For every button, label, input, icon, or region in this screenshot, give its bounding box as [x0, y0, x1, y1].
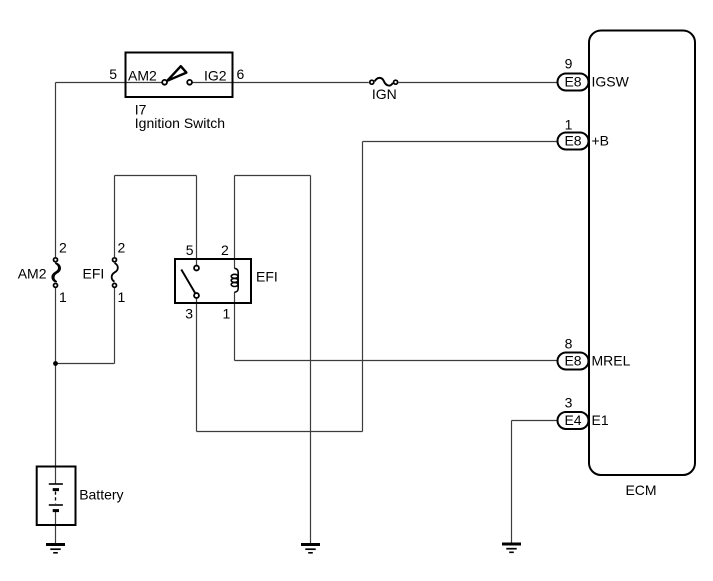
svg-text:AM2: AM2	[18, 265, 47, 281]
fuse EFI terminal 2	[113, 258, 117, 262]
svg-text:5: 5	[109, 66, 117, 82]
ignition switch box I7	[126, 53, 233, 98]
svg-text:E8: E8	[564, 353, 581, 369]
svg-text:E1: E1	[592, 412, 609, 428]
svg-text:3: 3	[565, 395, 573, 411]
wire EFI fuse vertical below terminal 1	[114, 288, 116, 364]
svg-text:9: 9	[565, 56, 573, 72]
svg-text:6: 6	[237, 66, 245, 82]
ignition switch right contact	[187, 80, 192, 85]
ignition switch left contact	[162, 80, 167, 85]
ignition switch lever	[167, 66, 186, 81]
ground relay coil	[301, 545, 320, 553]
wire main horizontal top from left vertical to ignition switch left contact	[56, 82, 162, 84]
svg-text:AM2: AM2	[128, 68, 157, 84]
fusible link AM2 element	[52, 263, 60, 282]
battery cell 2 negative plate	[53, 509, 59, 512]
wire horizontal from coil pin 1 to ECM MREL connector	[235, 360, 558, 362]
ground E1	[502, 544, 521, 552]
svg-text:2: 2	[221, 242, 229, 258]
relay coil	[231, 268, 238, 292]
svg-text:IG2: IG2	[204, 68, 227, 84]
junction node battery feed	[53, 361, 58, 366]
wire from relay pin 3 down	[196, 299, 198, 432]
svg-text:1: 1	[59, 289, 67, 305]
svg-text:ECM: ECM	[625, 482, 656, 498]
svg-text:5: 5	[186, 242, 194, 258]
wire battery negative to ground	[55, 511, 57, 544]
wire horizontal loop from coil pin 2 to ground riser	[235, 175, 311, 177]
svg-text:1: 1	[565, 117, 573, 133]
connector E8 pin 1 +B	[558, 133, 589, 150]
svg-text:8: 8	[565, 336, 573, 352]
fuse AM2 terminal 1	[54, 283, 58, 287]
fuse EFI terminal 1	[113, 283, 117, 287]
svg-text:2: 2	[59, 240, 67, 256]
svg-text:1: 1	[223, 306, 231, 322]
battery cell 2 positive plate	[49, 504, 63, 506]
svg-text:MREL: MREL	[592, 353, 631, 369]
wire EFI fuse vertical above terminal 2	[114, 176, 116, 258]
wire vertical +B riser	[362, 142, 364, 432]
battery box	[37, 467, 76, 526]
wire horizontal from junction to EFI fuse branch	[56, 363, 115, 365]
wire from relay coil pin 1 down to MREL line	[234, 292, 236, 360]
wire horizontal loop from EFI fuse to relay pin 5	[115, 175, 197, 177]
wire from ignition switch right contact to IGN fuse left terminal	[193, 82, 369, 84]
battery cell 1 negative plate	[53, 488, 59, 491]
wire from IGN fuse right terminal to ECM IGSW connector	[399, 82, 558, 84]
wire left vertical from top wire down to AM2 fuse terminal 2	[55, 83, 57, 258]
ECM box	[589, 31, 695, 476]
svg-text:3: 3	[185, 306, 193, 322]
relay contact pin 3	[194, 293, 199, 298]
svg-text:2: 2	[118, 240, 126, 256]
fuse IGN right terminal	[394, 80, 398, 84]
svg-text:EFI: EFI	[83, 265, 105, 281]
svg-text:E4: E4	[564, 412, 581, 428]
svg-text:1: 1	[118, 289, 126, 305]
ground battery	[46, 545, 65, 553]
wire vertical down to relay pin 5 contact	[196, 176, 198, 266]
fuse IGN left terminal	[370, 80, 374, 84]
connector E8 pin 8 MREL	[558, 353, 589, 370]
relay switch arm	[181, 270, 195, 295]
svg-text:E8: E8	[564, 133, 581, 149]
wire from relay coil pin 2 up	[234, 176, 236, 269]
connector E8 pin 9 IGSW	[558, 74, 589, 91]
fuse IGN element	[375, 78, 393, 86]
relay EFI box	[175, 259, 251, 303]
svg-text:+B: +B	[592, 133, 610, 149]
wire battery positive internal	[55, 467, 57, 485]
relay contact pin 5	[194, 266, 199, 271]
wire E1 ground drop vertical	[511, 421, 513, 544]
svg-text:IGSW: IGSW	[592, 74, 630, 90]
battery cell 1 positive plate	[49, 483, 63, 485]
svg-text:Battery: Battery	[79, 487, 123, 503]
svg-text:IGN: IGN	[372, 86, 397, 102]
wire horizontal to ECM +B connector	[363, 141, 558, 143]
fuse AM2 terminal 2	[54, 258, 58, 262]
connector E4 pin 3 E1	[558, 412, 589, 429]
svg-text:E8: E8	[564, 74, 581, 90]
wire from AM2 fuse terminal 1 down to battery junction	[55, 288, 57, 467]
svg-text:EFI: EFI	[256, 269, 278, 285]
battery internal dashed link	[55, 492, 57, 504]
wire from ECM E1 connector left	[512, 420, 558, 422]
fuse EFI element	[112, 263, 118, 282]
wire ground riser vertical for relay coil	[310, 176, 312, 545]
wire horizontal from relay pin 3 to +B riser	[197, 431, 363, 433]
svg-text:Ignition Switch: Ignition Switch	[135, 115, 225, 131]
